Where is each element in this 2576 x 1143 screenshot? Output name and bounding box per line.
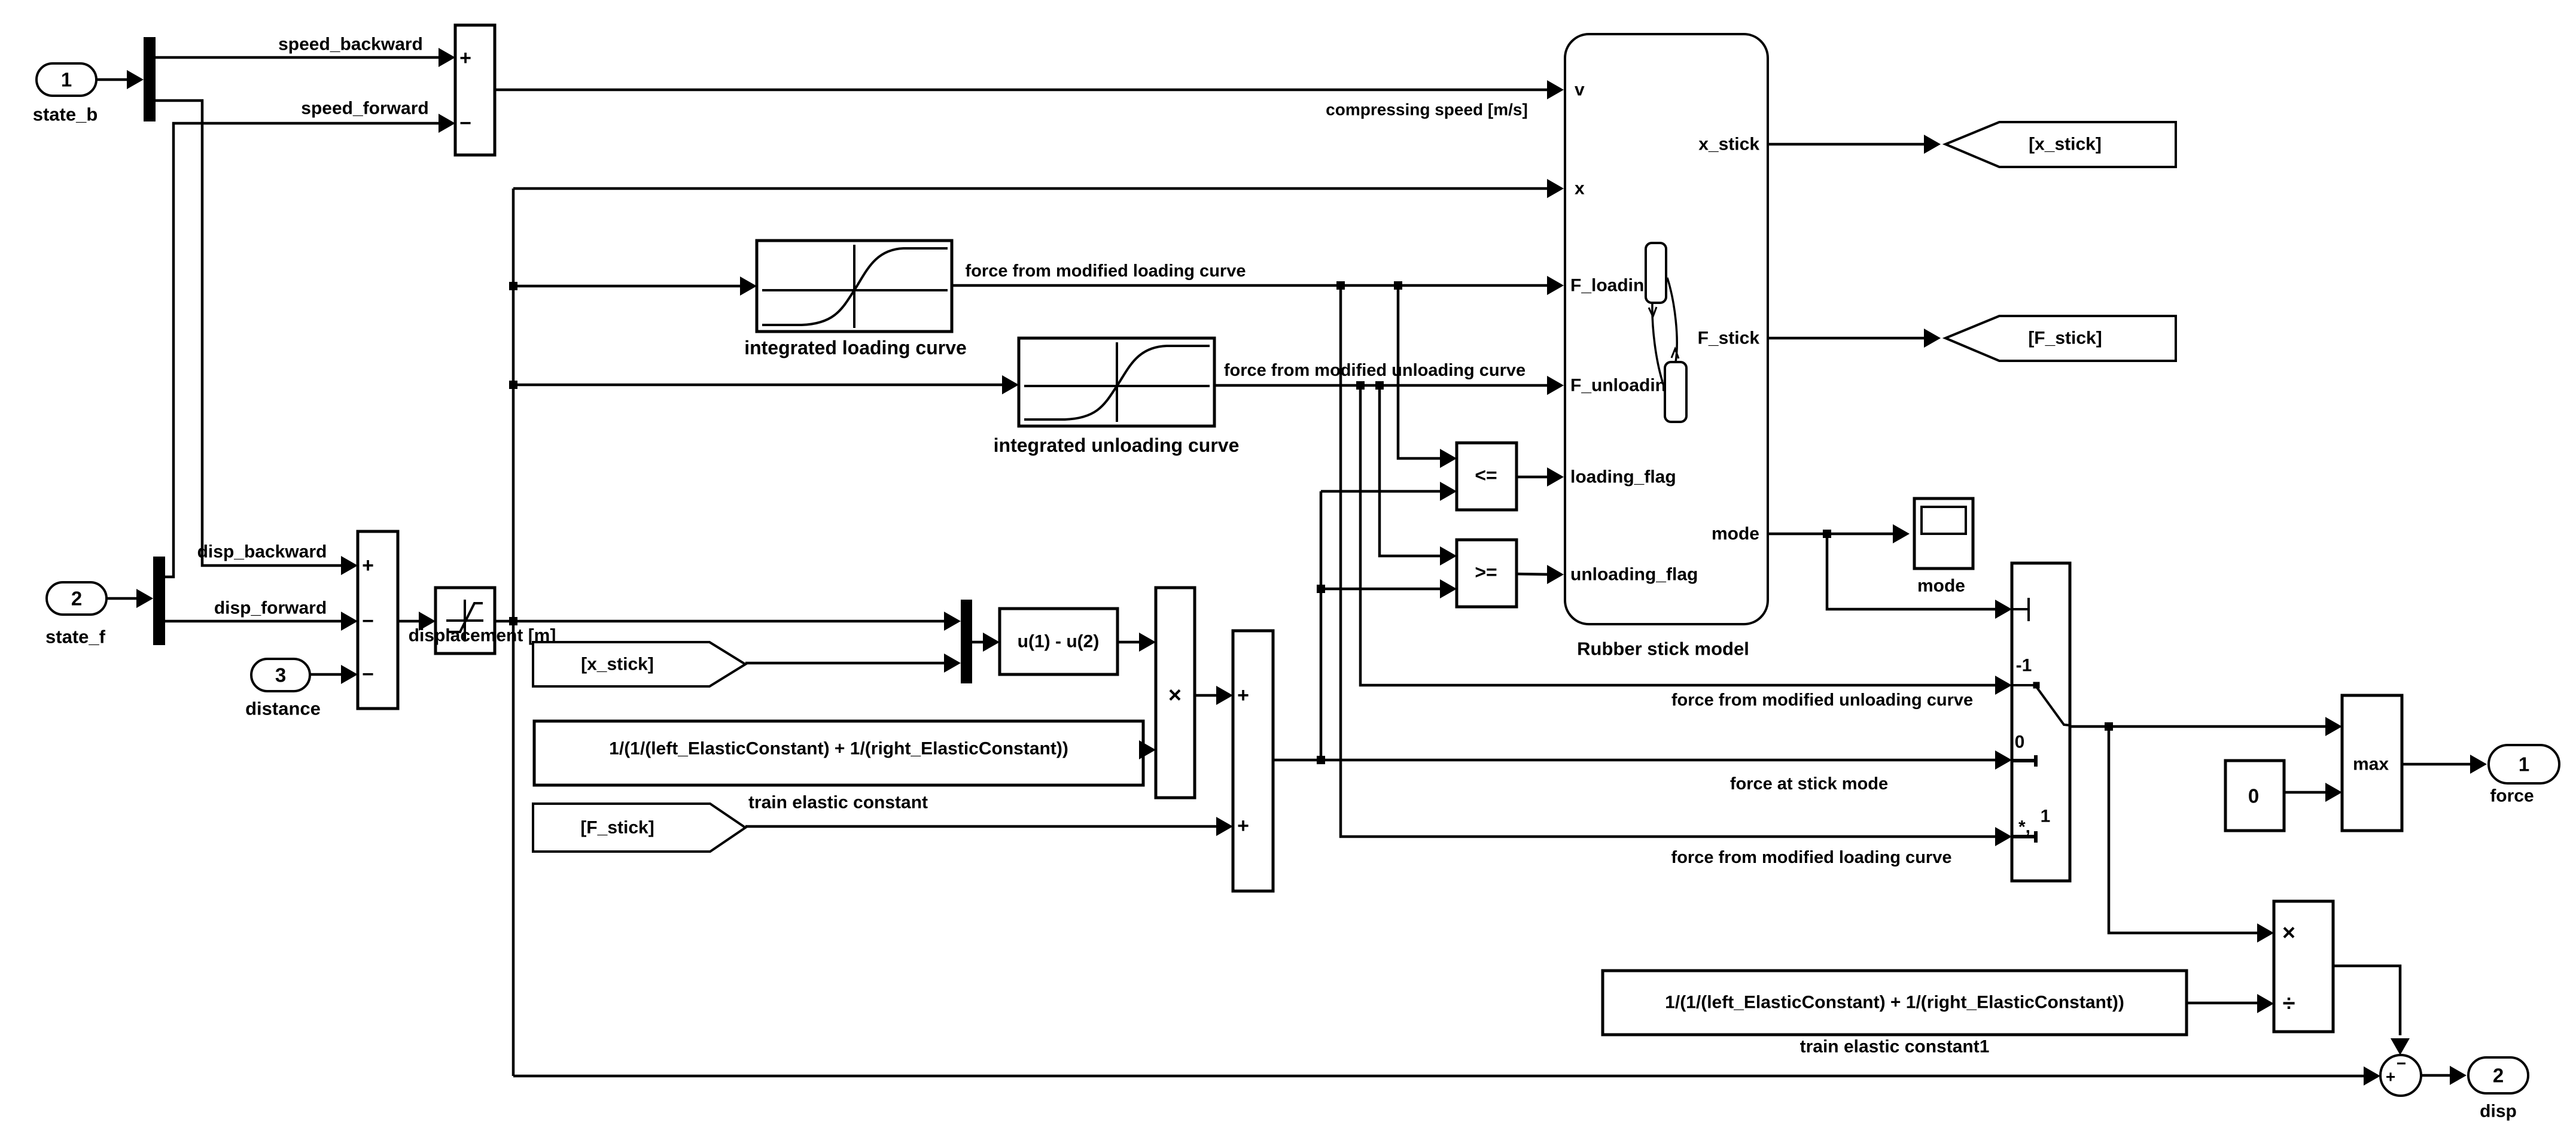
- wire x_stick out: [1768, 143, 1932, 146]
- wire v compressing speed: [495, 89, 1555, 92]
- svg-text:force: force: [2490, 786, 2534, 806]
- inport 2 state_f (oval): [47, 582, 106, 615]
- outport 1 force (oval): [2489, 745, 2559, 783]
- wire drop to switch loading: [1341, 285, 2003, 837]
- from tag [x_stick]: [533, 642, 745, 686]
- wire in1 to demux1: [96, 78, 135, 81]
- wire drop to switch -1: [1360, 385, 2003, 685]
- constant 0 block: [2225, 761, 2284, 831]
- svg-text:Rubber stick model: Rubber stick model: [1577, 639, 1749, 659]
- wire >= to unloading_flag: [1517, 574, 1555, 574]
- svg-text:-1: -1: [2016, 656, 2032, 676]
- svg-text:force from modified loading cu: force from modified loading curve: [1671, 848, 1952, 867]
- svg-text:force from modified unloading: force from modified unloading curve: [1671, 691, 1973, 710]
- svg-text:F_loading: F_loading: [1570, 276, 1655, 296]
- svg-text:[x_stick]: [x_stick]: [581, 655, 654, 674]
- circle sum block: [2380, 1055, 2421, 1096]
- svg-text:mode: mode: [1917, 576, 1965, 596]
- wire speed_forward: [165, 123, 447, 577]
- svg-text:1/(1/(left_ElasticConstant) +: 1/(1/(left_ElasticConstant) + 1/(right_E…: [609, 739, 1068, 759]
- svg-text:speed_backward: speed_backward: [278, 35, 423, 54]
- demux2 (black bar): [153, 557, 165, 645]
- svg-text:x_stick: x_stick: [1698, 135, 1759, 154]
- sum block Sum3: [1233, 631, 1273, 891]
- wire from F_stick to sum3: [745, 825, 1225, 828]
- svg-text:1: 1: [2519, 753, 2529, 776]
- wire mode to switch: [1827, 534, 2003, 609]
- switch port1 tick: [2012, 598, 2029, 621]
- svg-text:loading_flag: loading_flag: [1570, 467, 1676, 487]
- wire mode out: [1768, 533, 1901, 536]
- product divide block: [2274, 901, 2333, 1032]
- svg-text:integrated loading curve: integrated loading curve: [744, 337, 967, 358]
- wire tec to product: [1143, 749, 1147, 752]
- svg-text:−: −: [459, 112, 471, 135]
- svg-text:state_b: state_b: [33, 104, 98, 125]
- svg-text:[F_stick]: [F_stick]: [580, 818, 654, 838]
- svg-text:force from modified loading cu: force from modified loading curve: [966, 262, 1246, 281]
- wire tec1 to divide: [2187, 1002, 2266, 1005]
- inport 3 distance (oval): [251, 659, 310, 691]
- wire X to sum3: [1195, 694, 1225, 697]
- model icon state2: [1665, 362, 1686, 422]
- sum block Sum1: [455, 25, 495, 155]
- svg-text:−: −: [362, 610, 374, 633]
- demux1 (black bar): [144, 37, 156, 121]
- svg-text:disp_forward: disp_forward: [214, 598, 327, 618]
- svg-text:>=: >=: [1475, 561, 1497, 583]
- svg-text:mode: mode: [1712, 524, 1759, 544]
- svg-text:1: 1: [61, 69, 72, 91]
- svg-text:−: −: [362, 663, 374, 686]
- svg-text:F_stick: F_stick: [1698, 329, 1760, 348]
- svg-text:[F_stick]: [F_stick]: [2028, 329, 2102, 348]
- wire u to product: [1118, 641, 1147, 644]
- wire in2 to demux2: [106, 597, 145, 600]
- mux (black bar): [961, 600, 972, 683]
- svg-text:max: max: [2353, 755, 2389, 774]
- max block: [2342, 695, 2402, 831]
- svg-text:2: 2: [2493, 1065, 2504, 1087]
- relational block <=: [1457, 443, 1517, 510]
- svg-text:0: 0: [2248, 785, 2259, 807]
- svg-text:train elastic constant1: train elastic constant1: [1800, 1037, 1990, 1057]
- wire disp bottom long: [513, 1075, 2364, 1078]
- wire F_loading: [952, 284, 1555, 287]
- svg-text:+: +: [1237, 814, 1249, 837]
- svg-text:speed_forward: speed_forward: [301, 99, 428, 118]
- svg-text:disp: disp: [2480, 1102, 2517, 1121]
- svg-text:unloading_flag: unloading_flag: [1570, 565, 1698, 585]
- model icon transition down: [1652, 303, 1662, 382]
- switch port2 diag: [2012, 685, 2070, 725]
- svg-text:distance: distance: [245, 698, 321, 719]
- svg-text:+: +: [2386, 1068, 2395, 1086]
- svg-text:3: 3: [275, 664, 286, 686]
- scope block mode: [1914, 498, 1973, 569]
- wire to >= in2: [1321, 588, 1448, 591]
- wire <= to loading_flag: [1517, 476, 1555, 479]
- wire speed_backward: [156, 56, 447, 59]
- wire drop to >= in1: [1380, 385, 1448, 556]
- wire in3 to sum2: [310, 673, 349, 676]
- saturation block displacement: [436, 588, 495, 653]
- svg-text:train elastic constant: train elastic constant: [748, 793, 928, 813]
- wire x into model: [513, 187, 1555, 190]
- goto tag [F_stick]: [1945, 316, 2176, 361]
- svg-text:<=: <=: [1475, 464, 1497, 486]
- switch port3 tick: [2012, 755, 2036, 767]
- svg-text:2: 2: [71, 588, 82, 610]
- wire to <= in2: [1321, 490, 1448, 493]
- model icon state1: [1646, 243, 1666, 303]
- svg-text:0: 0: [2015, 732, 2025, 752]
- product block X: [1156, 588, 1195, 798]
- svg-text:compressing speed [m/s]: compressing speed [m/s]: [1326, 101, 1528, 119]
- outport 2 disp (oval): [2468, 1057, 2528, 1093]
- wire mux out: [972, 641, 991, 644]
- svg-text:x: x: [1575, 179, 1585, 199]
- wire drop to <= in1: [1398, 285, 1448, 458]
- wire switch out to max: [2070, 725, 2334, 728]
- svg-text:*,: *,: [2018, 817, 2030, 837]
- svg-text:v: v: [1575, 80, 1585, 100]
- svg-text:+: +: [1237, 684, 1249, 707]
- svg-text:disp_backward: disp_backward: [197, 542, 327, 562]
- fcn block u(1)-u(2): [1000, 609, 1118, 674]
- wire sum2 to saturation: [398, 620, 427, 623]
- wire from x_stick to mux: [745, 662, 952, 665]
- wire sum3 out to switch 0: [1273, 759, 2003, 762]
- wire divide out to circlesum: [2333, 966, 2400, 1035]
- node x-vertical: [512, 189, 515, 1076]
- switch port4 tick: [2012, 831, 2036, 843]
- wire switch out branch down: [2109, 726, 2266, 933]
- block integrated loading curve: [757, 241, 952, 332]
- model icon transition up: [1667, 278, 1677, 362]
- multiport switch: [2012, 563, 2070, 881]
- svg-text:×: ×: [1168, 683, 1182, 708]
- svg-text:÷: ÷: [2283, 991, 2295, 1016]
- wire F_unloading: [1214, 384, 1555, 387]
- sum block Sum2: [358, 531, 398, 709]
- wire 0 to max: [2284, 791, 2334, 794]
- svg-text:1: 1: [2041, 807, 2051, 826]
- svg-text:force at stick mode: force at stick mode: [1730, 774, 1888, 794]
- wire displacement to mux: [495, 620, 952, 623]
- svg-text:state_f: state_f: [45, 627, 106, 648]
- from tag [F_stick]: [533, 804, 745, 852]
- svg-text:force from modified unloading: force from modified unloading curve: [1224, 361, 1525, 380]
- subsystem Rubber stick model: [1565, 34, 1768, 624]
- svg-text:×: ×: [2282, 920, 2295, 946]
- wire stickmode vertical: [1320, 491, 1323, 760]
- svg-text:integrated unloading curve: integrated unloading curve: [994, 434, 1240, 456]
- svg-text:−: −: [2397, 1054, 2406, 1073]
- block train elastic constant: [534, 721, 1143, 785]
- block integrated unloading curve: [1019, 338, 1214, 426]
- svg-text:+: +: [459, 47, 471, 69]
- wire F_stick out: [1768, 337, 1932, 340]
- wire into integrated loading curve: [513, 285, 748, 288]
- block train elastic constant1: [1603, 971, 2187, 1035]
- goto tag [x_stick]: [1945, 122, 2176, 167]
- wire disp_forward: [165, 620, 349, 623]
- wire disp_backward: [156, 101, 349, 566]
- inport 1 state_b (oval): [36, 63, 96, 96]
- wire max to force: [2402, 763, 2478, 766]
- relational block >=: [1457, 540, 1517, 607]
- wire into integrated unloading curve: [513, 384, 1010, 387]
- wire circle to disp oval: [2421, 1074, 2458, 1077]
- svg-text:[x_stick]: [x_stick]: [2029, 135, 2102, 154]
- svg-text:+: +: [362, 554, 374, 577]
- svg-text:1/(1/(left_ElasticConstant) +: 1/(1/(left_ElasticConstant) + 1/(right_E…: [1665, 993, 2124, 1013]
- svg-text:u(1) - u(2): u(1) - u(2): [1018, 632, 1100, 652]
